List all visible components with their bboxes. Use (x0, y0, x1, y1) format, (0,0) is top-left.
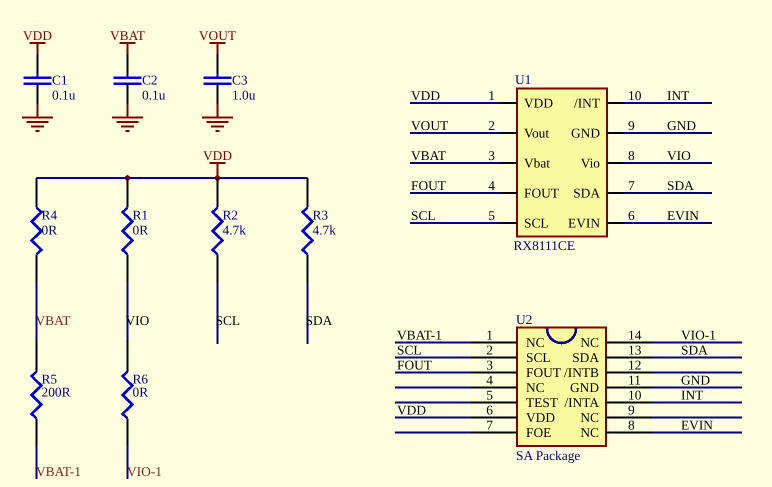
svg-text:FOUT: FOUT (397, 358, 432, 373)
svg-text:8: 8 (628, 418, 635, 433)
wire net to U2 pin 2 (395, 356, 471, 358)
U1 pin 3 (501, 162, 517, 164)
svg-text:Vbat: Vbat (524, 156, 550, 171)
svg-text:5: 5 (488, 208, 495, 223)
resistor R1 (123, 208, 133, 255)
wire net SCL to U1 pin 5 (410, 222, 501, 224)
wire U1 pin 8 to net VIO (623, 162, 712, 164)
wire net to U2 pin 7 (395, 431, 471, 433)
wire net to U2 pin 5 (395, 401, 471, 403)
svg-text:TEST: TEST (526, 395, 558, 410)
U2 pin 14 (606, 342, 652, 344)
svg-text:VIO: VIO (667, 148, 691, 163)
wire U1 pin 6 to net EVIN (623, 222, 712, 224)
svg-text:3: 3 (488, 148, 495, 163)
svg-text:FOE: FOE (526, 425, 551, 440)
svg-text:SDA: SDA (572, 350, 599, 365)
svg-text:1: 1 (488, 88, 495, 103)
wire rail to R2 (217, 178, 219, 208)
ground (22, 116, 53, 118)
resistor R5 (32, 372, 42, 419)
U1 pin 4 (501, 192, 517, 194)
svg-text:8: 8 (628, 148, 635, 163)
svg-text:200R: 200R (42, 385, 71, 400)
wire net to U2 pin 3 (395, 371, 471, 373)
capacitor C1 (36, 74, 38, 78)
svg-text:SDA: SDA (667, 178, 694, 193)
wire net VDD to U1 pin 1 (410, 102, 501, 104)
svg-text:14: 14 (628, 328, 642, 343)
wire C3 to ground (217, 84, 219, 105)
svg-text:2: 2 (486, 343, 493, 358)
wire SCL column (216, 282, 218, 344)
U2 pin 13 (606, 357, 652, 359)
svg-text:SCL: SCL (397, 343, 422, 358)
svg-text:SDA: SDA (306, 313, 333, 328)
svg-text:C1: C1 (52, 73, 68, 88)
svg-text:/INTA: /INTA (564, 395, 599, 410)
svg-text:C2: C2 (142, 73, 158, 88)
wire VBAT-1 tail (35, 446, 37, 479)
wire SDA column (306, 282, 308, 344)
svg-text:1.0u: 1.0u (232, 88, 256, 103)
U1 pin 8 (607, 162, 623, 164)
wire below R1 (127, 255, 129, 284)
resistor R6 (123, 372, 133, 419)
U1 pin 6 (607, 222, 623, 224)
svg-text:NC: NC (580, 425, 599, 440)
junction dot at VDD/R2 top (215, 175, 221, 181)
wire net to U2 pin 1 (395, 341, 471, 343)
svg-text:VDD: VDD (23, 28, 52, 43)
U2 pin 12 (606, 372, 652, 374)
svg-text:NC: NC (580, 335, 599, 350)
svg-text:SCL: SCL (411, 208, 436, 223)
svg-text:NC: NC (526, 335, 545, 350)
wire VBAT column (35, 282, 37, 341)
svg-text:VBAT-1: VBAT-1 (36, 464, 81, 479)
wire U2 pin 9 to net (652, 416, 742, 418)
svg-text:GND: GND (667, 118, 696, 133)
wire below R3 (307, 255, 309, 284)
svg-text:VOUT: VOUT (411, 118, 448, 133)
U2 pin 6 (471, 417, 517, 419)
svg-text:INT: INT (667, 88, 689, 103)
wire VDD rail (37, 177, 308, 179)
svg-text:7: 7 (486, 418, 493, 433)
resistor R4 (32, 208, 42, 255)
svg-text:R4: R4 (42, 208, 58, 223)
IC U1 body (RX8111CE) (517, 89, 607, 237)
svg-text:SCL: SCL (216, 313, 241, 328)
wire U1 pin 9 to net GND (623, 132, 712, 134)
wire U1 pin 10 to net INT (623, 102, 712, 104)
svg-text:9: 9 (628, 403, 635, 418)
U2 pin 5 (471, 402, 517, 404)
wire to R6 (127, 340, 129, 372)
svg-text:SDA: SDA (573, 186, 600, 201)
svg-text:4: 4 (486, 373, 493, 388)
U1 pin 1 (501, 102, 517, 104)
svg-text:SA Package: SA Package (516, 448, 580, 463)
capacitor C2 (126, 74, 128, 78)
wire C2 to ground (127, 84, 129, 105)
svg-text:13: 13 (628, 343, 642, 358)
wire VIO column (126, 282, 128, 341)
wire C1 to ground (37, 84, 39, 105)
svg-text:EVIN: EVIN (667, 208, 699, 223)
wire net to U2 pin 6 (395, 416, 471, 418)
U1 pin 10 (607, 102, 623, 104)
wire U2 pin 13 to net (652, 356, 742, 358)
svg-text:/INT: /INT (574, 96, 600, 111)
svg-text:6: 6 (628, 208, 635, 223)
wire rail to R1 (127, 178, 129, 208)
svg-text:VDD: VDD (397, 403, 426, 418)
svg-text:NC: NC (526, 380, 545, 395)
svg-text:GND: GND (681, 373, 710, 388)
wire VBAT to C2 (127, 54, 129, 77)
svg-text:0R: 0R (133, 223, 149, 238)
svg-text:10: 10 (628, 388, 642, 403)
svg-text:11: 11 (628, 373, 641, 388)
svg-text:VBAT: VBAT (110, 28, 145, 43)
svg-text:GND: GND (570, 380, 599, 395)
resistor R3 (303, 208, 313, 255)
U2 pin 11 (606, 387, 652, 389)
U2 pin 1 (471, 342, 517, 344)
svg-text:VIO-1: VIO-1 (127, 464, 162, 479)
svg-text:VIO-1: VIO-1 (681, 328, 716, 343)
svg-text:VBAT-1: VBAT-1 (397, 328, 442, 343)
wire U2 pin 8 to net (652, 431, 742, 433)
wire U1 pin 7 to net SDA (623, 192, 712, 194)
wire VIO-1 tail (126, 446, 128, 479)
svg-text:1: 1 (486, 328, 493, 343)
svg-text:VDD: VDD (203, 148, 232, 163)
svg-text:VBAT: VBAT (36, 313, 71, 328)
U2 pin 9 (606, 417, 652, 419)
svg-text:C3: C3 (232, 73, 248, 88)
svg-text:U2: U2 (516, 312, 532, 327)
svg-text:SCL: SCL (526, 350, 551, 365)
wire net FOUT to U1 pin 4 (410, 192, 501, 194)
wire VOUT to C3 (217, 54, 219, 77)
U2 pin 2 (471, 357, 517, 359)
svg-text:GND: GND (571, 126, 600, 141)
svg-text:2: 2 (488, 118, 495, 133)
U1 pin 2 (501, 132, 517, 134)
svg-text:RX8111CE: RX8111CE (514, 238, 576, 253)
svg-text:FOUT: FOUT (411, 178, 446, 193)
wire below R5 (36, 419, 38, 448)
U2 notch (547, 329, 576, 344)
wire U2 pin 12 to net (652, 371, 742, 373)
svg-text:7: 7 (628, 178, 635, 193)
svg-text:0.1u: 0.1u (142, 88, 166, 103)
svg-text:4.7k: 4.7k (223, 223, 247, 238)
U1 pin 7 (607, 192, 623, 194)
wire below R4 (36, 255, 38, 284)
svg-text:R2: R2 (223, 208, 239, 223)
U2 pin 7 (471, 432, 517, 434)
svg-text:0.1u: 0.1u (52, 88, 76, 103)
IC U2 body (SA Package) (517, 328, 606, 447)
svg-text:EVIN: EVIN (568, 216, 600, 231)
svg-text:SDA: SDA (681, 343, 708, 358)
svg-text:NC: NC (580, 410, 599, 425)
svg-text:VDD: VDD (526, 410, 555, 425)
U2 pin 4 (471, 387, 517, 389)
svg-text:5: 5 (486, 388, 493, 403)
svg-text:6: 6 (486, 403, 493, 418)
svg-text:/INTB: /INTB (564, 365, 599, 380)
resistor R2 (213, 208, 223, 255)
U1 pin 5 (501, 222, 517, 224)
svg-text:VBAT: VBAT (411, 148, 446, 163)
svg-text:12: 12 (628, 358, 641, 373)
wire U2 pin 11 to net (652, 386, 742, 388)
junction dot at R1 top (125, 175, 131, 181)
svg-text:VDD: VDD (524, 96, 553, 111)
wire net VOUT to U1 pin 2 (410, 132, 501, 134)
ground (202, 116, 233, 118)
ground (112, 116, 143, 118)
U2 pin 3 (471, 372, 517, 374)
svg-text:4: 4 (488, 178, 495, 193)
svg-text:EVIN: EVIN (681, 418, 713, 433)
svg-text:3: 3 (486, 358, 493, 373)
svg-text:SCL: SCL (524, 216, 549, 231)
wire net VBAT to U1 pin 3 (410, 162, 501, 164)
U2 pin 10 (606, 402, 652, 404)
svg-text:INT: INT (681, 388, 703, 403)
svg-text:R3: R3 (313, 208, 329, 223)
wire U2 pin 10 to net (652, 401, 742, 403)
svg-text:VIO: VIO (126, 313, 150, 328)
U1 pin 9 (607, 132, 623, 134)
wire net to U2 pin 4 (395, 386, 471, 388)
svg-text:FOUT: FOUT (524, 186, 559, 201)
svg-text:0R: 0R (133, 385, 149, 400)
svg-text:4.7k: 4.7k (313, 223, 337, 238)
svg-text:Vout: Vout (524, 126, 549, 141)
wire VDD to C1 (37, 54, 39, 77)
svg-text:9: 9 (628, 118, 635, 133)
svg-text:U1: U1 (515, 72, 531, 87)
wire below R2 (217, 255, 219, 284)
svg-text:Vio: Vio (581, 156, 601, 171)
svg-text:0R: 0R (42, 223, 58, 238)
svg-text:VOUT: VOUT (199, 28, 236, 43)
wire to R5 (36, 340, 38, 372)
wire rail to R4 (36, 178, 38, 208)
capacitor C3 (216, 74, 218, 78)
wire rail to R3 (307, 178, 309, 208)
svg-text:FOUT: FOUT (526, 365, 561, 380)
svg-text:VDD: VDD (411, 88, 440, 103)
svg-text:10: 10 (628, 88, 642, 103)
wire below R6 (127, 419, 129, 448)
wire U2 pin 14 to net (652, 341, 742, 343)
U2 pin 8 (606, 432, 652, 434)
svg-text:R1: R1 (133, 208, 149, 223)
